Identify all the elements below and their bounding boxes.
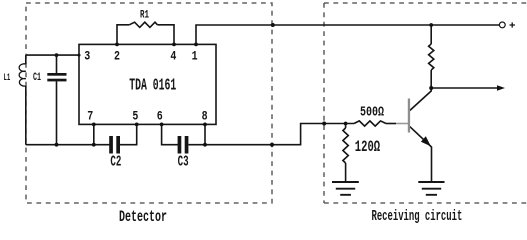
svg-text:8: 8 — [202, 111, 208, 124]
svg-text:500Ω: 500Ω — [360, 104, 384, 120]
svg-text:Detector: Detector — [119, 209, 167, 225]
svg-text:C2: C2 — [110, 154, 121, 171]
svg-text:5: 5 — [132, 111, 138, 124]
svg-text:7: 7 — [87, 111, 93, 124]
svg-text:2: 2 — [114, 51, 120, 64]
svg-text:6: 6 — [157, 111, 163, 124]
svg-text:R1: R1 — [140, 8, 149, 21]
svg-text:L1: L1 — [4, 72, 11, 84]
svg-text:1: 1 — [192, 51, 198, 64]
svg-text:TDA 0161: TDA 0161 — [129, 78, 176, 96]
svg-text:C3: C3 — [178, 154, 189, 171]
svg-text:120Ω: 120Ω — [355, 138, 381, 156]
svg-text:4: 4 — [170, 51, 176, 64]
svg-text:C1: C1 — [33, 71, 41, 84]
svg-text:3: 3 — [84, 51, 90, 64]
svg-text:Receiving circuit: Receiving circuit — [372, 208, 463, 225]
